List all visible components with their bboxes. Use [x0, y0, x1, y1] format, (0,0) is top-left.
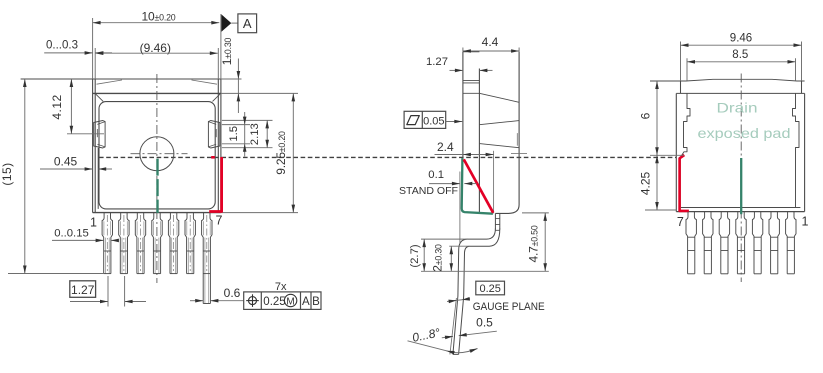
dimension 1.27 pitch with box — [70, 281, 96, 298]
svg-text:1.5: 1.5 — [228, 126, 240, 142]
back view: lead 1 — [786, 212, 788, 274]
dimension 4.25 — [645, 209, 676, 211]
svg-text:(15): (15) — [0, 162, 14, 185]
dimension 9.25±0.20 (body height) — [292, 93, 294, 212]
side view: lead S-bend and foot outer line — [453, 229, 496, 355]
back view: body bottom edge — [676, 211, 804, 213]
gauge plane tick and label — [447, 299, 470, 302]
global horizontal center dashed line — [99, 156, 676, 158]
back view: lead 3 — [752, 212, 754, 274]
svg-text:0.6: 0.6 — [224, 286, 241, 300]
svg-text:2.13: 2.13 — [249, 123, 261, 145]
back view: lead 5 — [719, 212, 721, 274]
front view: tab right edge / datum extension — [220, 14, 222, 79]
back view: lead 6 — [703, 212, 705, 274]
svg-text:7: 7 — [216, 214, 223, 228]
side view: mold standoff extension line — [459, 172, 461, 244]
dimension 4.12 — [67, 133, 104, 135]
svg-text:0.25: 0.25 — [479, 283, 500, 295]
front view: lead 5 — [168, 213, 170, 274]
svg-text:1±0.30: 1±0.30 — [220, 37, 234, 65]
svg-text:6: 6 — [639, 112, 653, 119]
dimension 2±0.30 — [449, 245, 469, 247]
side view: tab front face — [478, 69, 480, 214]
front view: lead 1 — [102, 213, 104, 274]
back view: tab side edges / 9.46 extensions — [680, 42, 682, 82]
svg-text:STAND OFF: STAND OFF — [399, 186, 458, 197]
side view: tab top cap — [463, 51, 480, 53]
side view: body back edge with bottom corner — [518, 48, 520, 52]
dimension (2.7) — [421, 238, 468, 240]
front view: right side tab — [208, 121, 219, 149]
svg-text:B: B — [312, 296, 320, 308]
front view: horizontal center line through circle — [131, 153, 188, 155]
svg-text:0..0.15: 0..0.15 — [54, 227, 89, 239]
0.25 box (gauge plane offset) — [476, 281, 505, 295]
svg-text:0...0.3: 0...0.3 — [46, 39, 78, 51]
back view: exposed pad left profile — [680, 94, 690, 208]
svg-text:4.7±0.50: 4.7±0.50 — [527, 225, 541, 262]
front view: body top edge, extended right for 9.25 dim — [93, 92, 221, 94]
svg-text:2±0.30: 2±0.30 — [430, 244, 444, 272]
front view: lead 6 — [185, 213, 187, 274]
svg-text:0.45: 0.45 — [54, 154, 78, 168]
svg-text:0.05: 0.05 — [423, 115, 444, 127]
svg-text:2.4: 2.4 — [437, 140, 454, 154]
side view: green highlight along tab face and bottom — [462, 158, 493, 214]
back view: mold top line — [676, 92, 804, 94]
svg-text:1: 1 — [90, 216, 97, 230]
front view: inner mold rounded rectangle — [99, 102, 215, 209]
front view: leadframe edge line inside left side (0.45 ref) — [97, 148, 99, 209]
front view: lead 3 — [135, 213, 137, 274]
front view: lead 7 — [202, 213, 204, 304]
dimension 1±0.30 (tab step) — [221, 78, 242, 80]
side view: mold taper line upper — [479, 93, 519, 102]
side view: red diagonal highlight — [464, 159, 493, 212]
datum A flag — [221, 14, 231, 31]
dimension 4.7±0.50 — [522, 212, 549, 214]
front view: body bottom edge, extended right for 9.25 dim — [93, 212, 221, 214]
svg-text:1.27: 1.27 — [426, 56, 448, 68]
side view: lead foot alternate position line — [450, 298, 457, 354]
svg-text:1: 1 — [802, 215, 809, 229]
front view: mold left edge — [94, 48, 96, 79]
front view: left side tab — [94, 121, 105, 149]
dimension (15) overall height — [8, 273, 103, 275]
side view: lead exit strip — [494, 213, 496, 229]
svg-text:4.4: 4.4 — [482, 35, 499, 49]
side view: small edge mark on back face — [516, 133, 518, 146]
front view: red highlight line along right edge and bottom — [211, 156, 215, 159]
back view: lead 2 — [769, 212, 771, 274]
svg-text:(2.7): (2.7) — [409, 244, 421, 267]
back view: inner bottom line — [681, 207, 800, 209]
side view: tab step lines — [463, 80, 480, 82]
svg-text:(9.46): (9.46) — [140, 41, 171, 55]
side view: mold taper line middle — [479, 121, 519, 125]
svg-text:8.5: 8.5 — [732, 49, 748, 61]
svg-text:Drain: Drain — [717, 100, 758, 116]
feature control frame: position 0.25 M A B — [244, 292, 321, 310]
flatness feature frame 0.05 — [404, 111, 446, 128]
dimension 2.13 (side tab outer) — [266, 120, 268, 147]
front view: tab top edge with left extension line — [21, 78, 221, 80]
back view: mold left edge — [675, 93, 677, 211]
svg-text:4.25: 4.25 — [639, 171, 653, 195]
side view: 2.4 extension line — [493, 151, 495, 214]
svg-text:9.25±0.20: 9.25±0.20 — [274, 131, 288, 175]
svg-text:0.1: 0.1 — [428, 169, 444, 181]
front view: mold right edge — [217, 48, 219, 79]
back view: lead 7 — [686, 212, 688, 274]
svg-text:1.27: 1.27 — [71, 283, 95, 297]
back view: mold right edge — [804, 93, 806, 211]
seating plane line — [421, 270, 549, 272]
side view: lead foot tip — [453, 353, 459, 355]
dimension 1.5 (side tab inner) — [222, 119, 273, 121]
svg-text:4.12: 4.12 — [50, 94, 64, 119]
front view: tab left edge / extension — [92, 18, 94, 79]
back view: red highlight line — [680, 155, 689, 211]
side view: tab mounting face (left edge) — [462, 48, 464, 52]
side view: mold taper line lower — [479, 144, 519, 148]
svg-text:0.5: 0.5 — [476, 316, 493, 330]
svg-text:M: M — [286, 296, 294, 307]
svg-text:GAUGE PLANE: GAUGE PLANE — [473, 301, 545, 313]
svg-text:0.25: 0.25 — [263, 296, 285, 308]
back view: tab top edge profile with left extension — [650, 79, 805, 81]
side view: tick near dashed line on back face — [511, 152, 527, 154]
svg-text:7: 7 — [677, 215, 684, 229]
front view: top corner bevels — [96, 94, 103, 101]
back view: center line (dash-dot) — [740, 74, 742, 283]
back view: green highlight line — [740, 158, 742, 214]
front view: tab top taper bevels — [97, 80, 123, 84]
svg-text:A: A — [243, 16, 252, 31]
front view: green dashed center highlight line — [156, 159, 158, 213]
front view: lead 2 — [119, 213, 121, 274]
svg-text:A: A — [302, 296, 310, 308]
svg-text:9.46: 9.46 — [730, 32, 752, 44]
svg-text:10±0.20: 10±0.20 — [142, 9, 176, 23]
back view: exposed pad right profile — [793, 94, 800, 208]
svg-text:exposed pad: exposed pad — [698, 125, 791, 141]
dimension 6 — [650, 154, 684, 156]
front view: center circle — [140, 137, 174, 171]
back view: lead 4 — [736, 212, 738, 274]
front view: vertical center line (dash-dot) — [156, 74, 158, 283]
side view: lead S-bend and foot inner line — [459, 229, 500, 355]
front view: lead 4 — [152, 213, 154, 274]
